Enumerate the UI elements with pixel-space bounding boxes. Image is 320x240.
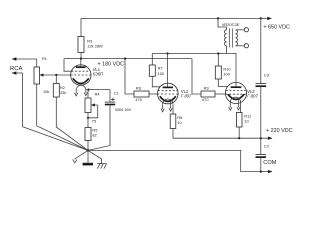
- svg-text:33k: 33k: [60, 90, 66, 95]
- wire +180 to VL1 screen: [64, 59, 71, 72]
- RCA input arrow top (signal): [12, 57, 37, 60]
- ground hatched: [88, 150, 107, 168]
- transformer secondary winding: [236, 30, 238, 46]
- svg-text:RCA: RCA: [10, 66, 23, 72]
- svg-text:C2: C2: [264, 143, 269, 148]
- node R3 bottom / VL1 plate: [80, 58, 82, 60]
- resistor R8: [170, 114, 176, 138]
- ground bus wire to COM: [88, 150, 272, 171]
- wire RCA shield to ground junction: [23, 73, 88, 150]
- RCA input arrow bottom (shield): [12, 71, 23, 74]
- node transformer primary top: [217, 17, 219, 19]
- wire transformer primary bottom to plate bus: [226, 46, 228, 54]
- wire R2 bottom to ground junction: [56, 97, 88, 150]
- svg-text:R1: R1: [42, 56, 47, 61]
- transformer secondary terminal bottom: [236, 44, 249, 48]
- svg-text:R4: R4: [95, 92, 101, 97]
- triode VL1: [71, 59, 91, 96]
- svg-text:VR20C3E: VR20C3E: [222, 22, 240, 27]
- capacitor C1: [88, 90, 115, 151]
- potentiometer R1: [34, 67, 71, 84]
- svg-text:100: 100: [223, 72, 230, 77]
- svg-text:C1: C1: [114, 91, 119, 96]
- svg-text:R7: R7: [158, 66, 163, 71]
- svg-text:12k 28W: 12k 28W: [87, 44, 103, 49]
- svg-text:82: 82: [92, 132, 96, 137]
- node cathode / R4: [87, 89, 89, 91]
- svg-text:+ 650 VDC: + 650 VDC: [263, 24, 290, 30]
- potentiometer R4: [85, 90, 98, 118]
- resistor R3: [78, 18, 84, 58]
- resistor R5: [85, 128, 91, 151]
- node +650 to C3: [260, 17, 262, 19]
- svg-text:6Э6П: 6Э6П: [93, 72, 103, 77]
- svg-text:470: 470: [202, 97, 209, 102]
- node ground junction: [87, 149, 90, 152]
- svg-text:100: 100: [158, 71, 165, 76]
- node R4 wiper join: [87, 117, 89, 119]
- svg-text:+ 220 VDC: + 220 VDC: [266, 128, 293, 134]
- arrow COM: [268, 170, 273, 173]
- svg-text:R9: R9: [204, 85, 209, 90]
- svg-text:470: 470: [135, 97, 142, 102]
- node C3 bottom: [260, 137, 262, 139]
- capacitor C2: [256, 138, 267, 171]
- svg-text:3300 16V: 3300 16V: [115, 107, 132, 112]
- ground earth arrow: [73, 150, 88, 163]
- wire +220 rail: [173, 137, 272, 139]
- svg-text:10k: 10k: [43, 89, 49, 94]
- svg-text:Г-807: Г-807: [247, 94, 258, 99]
- ground chassis bar: [83, 150, 93, 165]
- node R6 feed: [124, 58, 126, 60]
- resistor R6: [125, 59, 158, 97]
- wire RCA signal to R1 top: [36, 59, 38, 67]
- arrow +220 VDC: [268, 137, 273, 140]
- node grid VL1 / R2 top: [55, 74, 57, 76]
- svg-text:C3: C3: [264, 72, 269, 77]
- wire R1 bottom to ground junction: [37, 84, 88, 150]
- svg-text:75: 75: [92, 119, 96, 124]
- svg-text:COM: COM: [263, 160, 276, 166]
- wire plate bus VL2/VL3: [152, 54, 236, 88]
- resistor R9: [192, 59, 226, 97]
- wire R4 to R5: [87, 113, 89, 128]
- resistor R10: [215, 54, 227, 87]
- resistor R11: [236, 113, 242, 139]
- svg-text:R6: R6: [136, 85, 141, 90]
- node COM junction: [260, 171, 262, 173]
- wire +180 rail: [64, 58, 192, 60]
- wire +650 top rail: [81, 17, 271, 19]
- resistor R7: [149, 54, 160, 87]
- svg-text:Г-807: Г-807: [181, 93, 192, 98]
- transformer primary lead: [218, 18, 227, 29]
- node VL2 plate: [166, 52, 168, 54]
- tetrode VL2: [158, 54, 179, 115]
- transformer secondary terminal top: [236, 28, 249, 32]
- transformer core: [229, 29, 232, 48]
- svg-text:+ 180 VDC: + 180 VDC: [98, 61, 125, 67]
- node R10 top: [217, 52, 219, 54]
- arrow +650 VDC: [267, 17, 272, 20]
- capacitor C3: [256, 18, 267, 138]
- tetrode VL3: [225, 82, 246, 112]
- node R11 bottom: [238, 137, 240, 139]
- resistor R2: [53, 75, 59, 97]
- wire VL1 cathode tap: [86, 89, 110, 91]
- transformer primary winding: [225, 30, 227, 46]
